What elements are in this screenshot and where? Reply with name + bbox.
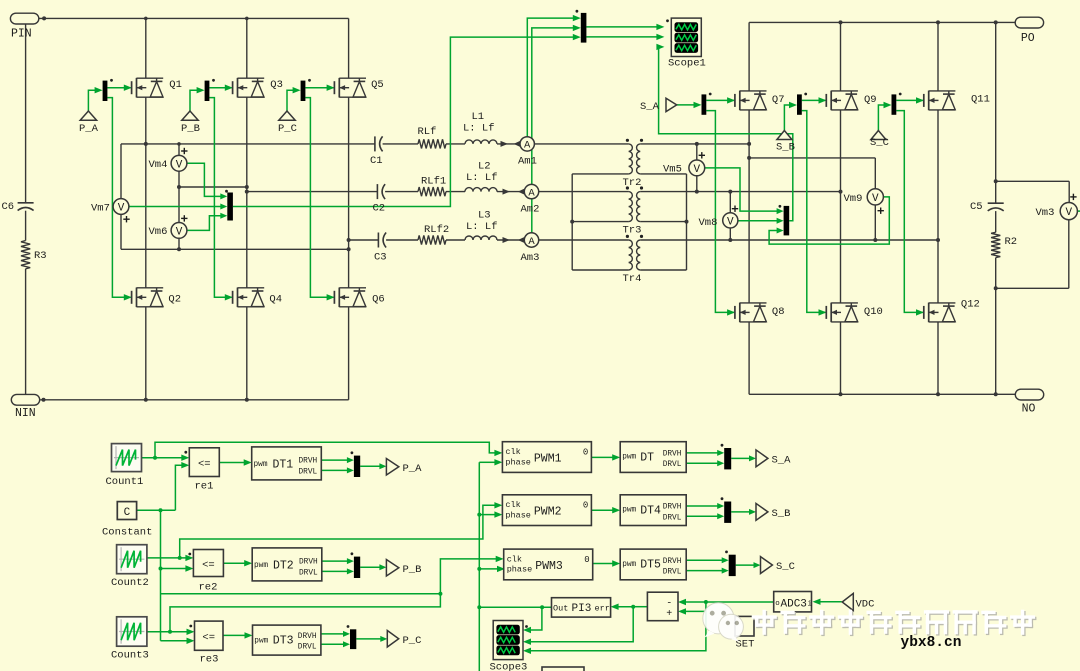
- svg-text:ADC3: ADC3: [781, 598, 807, 610]
- svg-text:DT1: DT1: [273, 458, 294, 471]
- svg-text:PWM1: PWM1: [534, 453, 562, 466]
- svg-text:RLf2: RLf2: [424, 224, 449, 236]
- svg-text:phase: phase: [505, 510, 531, 520]
- svg-text:clk: clk: [507, 554, 522, 564]
- svg-text:P_B: P_B: [403, 564, 422, 576]
- svg-text:P_A: P_A: [403, 463, 423, 475]
- svg-text:Q11: Q11: [971, 93, 990, 105]
- svg-text:0: 0: [583, 448, 588, 458]
- svg-text:+: +: [666, 609, 672, 620]
- svg-text:Q10: Q10: [864, 306, 883, 318]
- svg-text:Q12: Q12: [961, 299, 980, 311]
- svg-text:DT4: DT4: [640, 504, 661, 517]
- svg-text:RLf: RLf: [418, 126, 437, 138]
- svg-text:DRVH: DRVH: [299, 559, 318, 567]
- svg-text:Scope1: Scope1: [668, 57, 706, 69]
- svg-text:DRVL: DRVL: [298, 644, 317, 652]
- svg-text:<=: <=: [202, 632, 215, 644]
- svg-text:L: Lf: L: Lf: [466, 221, 498, 233]
- svg-text:DRVH: DRVH: [298, 633, 317, 641]
- svg-text:clk: clk: [505, 500, 520, 510]
- svg-text:phase: phase: [505, 457, 531, 467]
- svg-text:-: -: [666, 599, 672, 610]
- svg-text:Constant: Constant: [102, 527, 152, 539]
- svg-text:Q2: Q2: [168, 293, 181, 305]
- svg-text:DT: DT: [640, 451, 654, 464]
- svg-text:Tr3: Tr3: [623, 225, 642, 237]
- svg-text:C: C: [124, 507, 131, 519]
- svg-text:PIN: PIN: [11, 27, 32, 40]
- svg-text:V: V: [176, 159, 183, 171]
- svg-text:Tr4: Tr4: [623, 273, 642, 285]
- svg-text:Scope3: Scope3: [490, 662, 528, 671]
- svg-text:0: 0: [584, 555, 589, 565]
- svg-text:re3: re3: [200, 654, 219, 666]
- svg-text:i: i: [808, 601, 813, 609]
- svg-text:Q9: Q9: [864, 94, 877, 106]
- svg-text:DT3: DT3: [273, 635, 294, 648]
- svg-text:Q4: Q4: [269, 293, 282, 305]
- svg-text:P_C: P_C: [403, 635, 422, 647]
- svg-text:V: V: [118, 203, 125, 215]
- svg-text:re1: re1: [195, 481, 214, 493]
- svg-text:pwm: pwm: [622, 561, 636, 569]
- svg-text:Count3: Count3: [111, 650, 149, 662]
- svg-text:re2: re2: [199, 582, 218, 594]
- svg-text:DRVH: DRVH: [663, 504, 682, 512]
- svg-text:DRVH: DRVH: [299, 458, 318, 466]
- svg-text:Vm5: Vm5: [663, 164, 682, 176]
- svg-text:Am2: Am2: [521, 204, 540, 216]
- svg-text:Count2: Count2: [111, 577, 149, 589]
- svg-text:Vm4: Vm4: [149, 159, 168, 171]
- svg-text:Vm8: Vm8: [699, 217, 718, 229]
- svg-text:err: err: [595, 604, 610, 614]
- svg-text:P_A: P_A: [79, 123, 99, 135]
- svg-text:DT5: DT5: [640, 559, 661, 572]
- svg-text:0: 0: [583, 501, 588, 511]
- svg-text:V: V: [727, 216, 734, 228]
- svg-text:PWM2: PWM2: [534, 506, 562, 519]
- svg-text:RLf1: RLf1: [421, 176, 446, 188]
- svg-text:phase: phase: [507, 565, 533, 575]
- svg-text:R3: R3: [34, 250, 47, 262]
- svg-text:Am1: Am1: [518, 156, 537, 168]
- svg-text:DRVH: DRVH: [663, 558, 682, 566]
- svg-text:P_C: P_C: [278, 123, 297, 135]
- svg-text:C6: C6: [2, 201, 15, 213]
- svg-text:Q8: Q8: [772, 306, 785, 318]
- svg-text:pwm: pwm: [254, 562, 268, 570]
- svg-text:V: V: [693, 164, 700, 176]
- svg-text:pwm: pwm: [254, 637, 268, 645]
- svg-text:Tr2: Tr2: [623, 177, 642, 189]
- svg-text:S_B: S_B: [772, 508, 791, 520]
- svg-text:Count1: Count1: [106, 476, 144, 488]
- svg-text:Q3: Q3: [270, 79, 283, 91]
- svg-text:VDC: VDC: [856, 598, 875, 610]
- svg-text:PI3: PI3: [572, 603, 592, 615]
- svg-text:pwm: pwm: [622, 507, 636, 515]
- svg-text:Q5: Q5: [371, 79, 384, 91]
- svg-text:pwm: pwm: [254, 461, 268, 469]
- svg-text:S_A: S_A: [640, 101, 660, 113]
- svg-text:DRVL: DRVL: [299, 468, 318, 476]
- svg-text:DRVL: DRVL: [663, 514, 682, 522]
- svg-text:Vm6: Vm6: [149, 226, 168, 238]
- svg-text:A: A: [524, 140, 531, 152]
- svg-text:A: A: [528, 187, 535, 199]
- svg-text:clk: clk: [505, 447, 520, 457]
- svg-text:DRVL: DRVL: [299, 569, 318, 577]
- svg-text:SET: SET: [736, 639, 755, 651]
- svg-text:Q7: Q7: [772, 94, 785, 106]
- svg-text:Vm7: Vm7: [91, 203, 110, 215]
- svg-text:ybx8.cn: ybx8.cn: [901, 635, 962, 651]
- svg-text:Vm9: Vm9: [844, 193, 863, 205]
- svg-text:DRVH: DRVH: [663, 451, 682, 459]
- svg-text:P_B: P_B: [181, 123, 200, 135]
- svg-text:C5: C5: [970, 201, 983, 213]
- svg-text:R2: R2: [1005, 236, 1018, 248]
- svg-text:C1: C1: [370, 155, 383, 167]
- svg-text:<=: <=: [202, 560, 215, 572]
- svg-text:PO: PO: [1021, 32, 1035, 45]
- svg-text:L1: L1: [472, 111, 485, 123]
- svg-text:pwm: pwm: [622, 454, 636, 462]
- svg-text:A: A: [528, 236, 535, 248]
- svg-text:V: V: [872, 193, 879, 205]
- svg-text:V: V: [176, 226, 183, 238]
- svg-text:L: Lf: L: Lf: [463, 123, 495, 135]
- svg-text:S_B: S_B: [776, 141, 795, 153]
- svg-text:C2: C2: [373, 203, 386, 215]
- svg-text:Out: Out: [553, 604, 568, 614]
- svg-text:NIN: NIN: [15, 407, 36, 420]
- svg-text:L3: L3: [478, 210, 491, 222]
- svg-text:L: Lf: L: Lf: [466, 172, 498, 184]
- svg-text:Vm3: Vm3: [1036, 207, 1055, 219]
- svg-text:S_C: S_C: [776, 561, 795, 573]
- svg-text:DRVL: DRVL: [663, 461, 682, 469]
- svg-text:NO: NO: [1022, 403, 1036, 416]
- svg-text:C3: C3: [374, 252, 387, 264]
- svg-text:PWM3: PWM3: [535, 560, 563, 573]
- svg-text:V: V: [1065, 207, 1072, 219]
- svg-text:S_C: S_C: [870, 137, 889, 149]
- svg-text:DRVL: DRVL: [663, 569, 682, 577]
- svg-text:L2: L2: [478, 161, 491, 173]
- svg-text:Q6: Q6: [372, 293, 385, 305]
- svg-text:Q1: Q1: [169, 79, 182, 91]
- svg-text:<=: <=: [198, 458, 211, 470]
- svg-text:S_A: S_A: [772, 455, 792, 467]
- svg-text:DT2: DT2: [273, 559, 294, 572]
- svg-text:Am3: Am3: [521, 252, 540, 264]
